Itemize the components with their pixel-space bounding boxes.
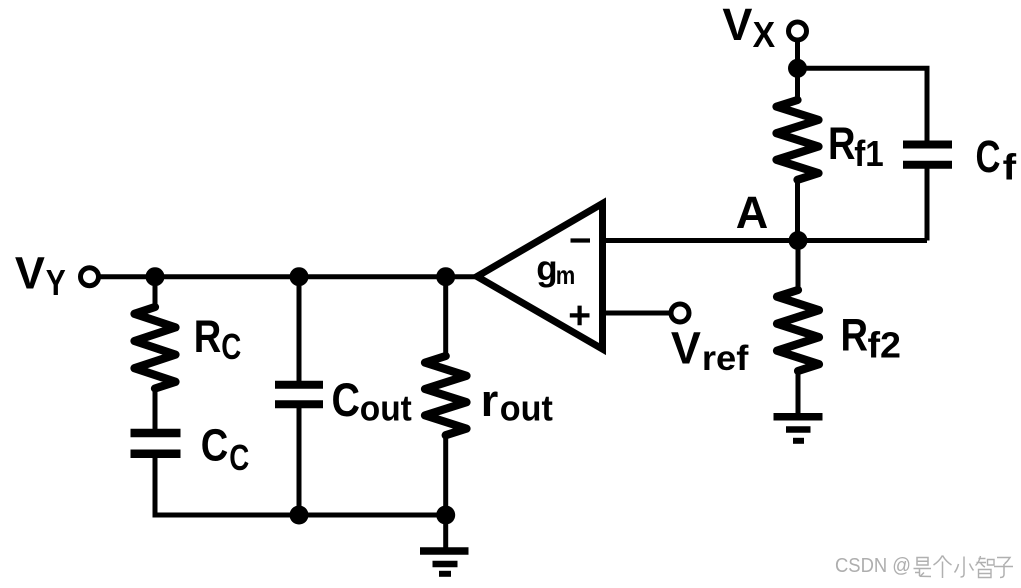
svg-text:m: m xyxy=(556,260,576,290)
junction dot: rout top xyxy=(436,267,455,286)
wire: Rf2 top lead xyxy=(796,241,801,292)
svg-text:f1: f1 xyxy=(854,133,884,174)
svg-text:R: R xyxy=(194,311,222,362)
junction dot: node A xyxy=(789,231,808,250)
wire: rout top lead xyxy=(443,277,448,357)
terminal VY xyxy=(81,268,99,286)
terminal VX xyxy=(789,22,807,40)
svg-text:f: f xyxy=(1003,147,1018,188)
watermark CJK glyph 是 xyxy=(914,558,932,577)
svg-text:C: C xyxy=(201,419,229,470)
svg-text:out: out xyxy=(360,388,412,429)
svg-text:f2: f2 xyxy=(868,325,902,366)
svg-text:V: V xyxy=(15,248,45,299)
wire: node A horizontal (op-amp minus to Cf branch) xyxy=(602,169,927,241)
watermark CJK glyph 子 xyxy=(994,558,1013,578)
watermark CJK glyph 智 xyxy=(976,556,995,578)
svg-text:V: V xyxy=(671,323,701,374)
junction dot: rout bottom xyxy=(436,506,455,525)
wire: rout bottom lead xyxy=(443,434,448,515)
svg-text:X: X xyxy=(753,14,776,55)
svg-text:CSDN @: CSDN @ xyxy=(835,555,911,577)
svg-text:V: V xyxy=(722,0,752,50)
op-amp U1 (gm transconductor) xyxy=(477,204,603,350)
capacitor Cout xyxy=(275,385,323,405)
resistor RC xyxy=(135,307,176,389)
svg-text:R: R xyxy=(841,309,869,360)
svg-text:A: A xyxy=(736,187,769,238)
wire: main output node horizontal (VY to op-amp apex) xyxy=(98,274,478,279)
svg-text:r: r xyxy=(481,375,499,426)
junction dot: VY/RC xyxy=(146,267,165,286)
resistor Rf2 xyxy=(777,290,819,371)
op-amp plus sign xyxy=(570,306,590,326)
terminal Vref xyxy=(671,304,689,322)
op-amp minus sign xyxy=(571,238,591,242)
svg-text:R: R xyxy=(828,118,856,169)
junction dot: VX branch xyxy=(788,59,807,78)
wire: RC to CC lead xyxy=(153,388,158,429)
svg-text:ref: ref xyxy=(702,339,749,378)
svg-text:out: out xyxy=(500,388,553,429)
wire: VX stem (terminal to junction) xyxy=(795,40,800,68)
watermark CJK glyph 小 xyxy=(955,557,974,578)
svg-text:C: C xyxy=(332,374,361,427)
wire: Rf1 bottom lead to node A xyxy=(795,179,800,241)
resistor Rf1 xyxy=(777,100,819,180)
wire: top-right over to Cf branch xyxy=(798,68,928,141)
watermark CJK glyph 个 xyxy=(934,556,952,579)
wire: plus input to Vref terminal xyxy=(602,311,671,316)
ground (below rout rail) xyxy=(420,547,469,555)
wire: CC bottom lead + bottom rail xyxy=(155,458,446,516)
junction dot: Cout bottom xyxy=(290,506,309,525)
wire: Rf2 bottom lead to ground xyxy=(796,370,801,414)
svg-text:g: g xyxy=(536,249,557,288)
wire: Cout top lead xyxy=(297,277,302,381)
svg-text:C: C xyxy=(229,437,249,478)
wire: Cout bottom lead xyxy=(297,408,302,515)
svg-text:C: C xyxy=(221,326,241,367)
svg-text:C: C xyxy=(976,131,1001,182)
junction dot: Cout top xyxy=(290,267,309,286)
capacitor Cf xyxy=(903,145,952,165)
svg-text:Y: Y xyxy=(46,262,66,303)
resistor rout xyxy=(425,356,467,435)
wire: Rf1 top lead xyxy=(795,68,800,101)
wire: ground stem below rail xyxy=(443,515,448,548)
capacitor CC xyxy=(131,433,181,454)
ground (below Rf2) xyxy=(774,413,823,421)
wire: RC top lead xyxy=(153,277,158,308)
